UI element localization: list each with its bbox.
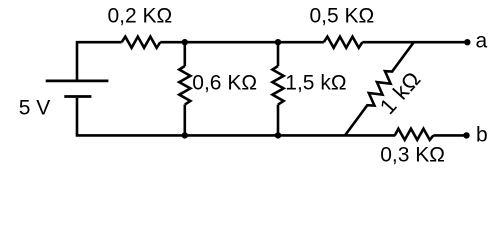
svg-text:0,2 KΩ: 0,2 KΩ — [108, 4, 173, 27]
svg-text:b: b — [476, 124, 488, 147]
svg-text:1,5 kΩ: 1,5 kΩ — [285, 71, 346, 94]
svg-text:0,5 KΩ: 0,5 KΩ — [310, 4, 375, 27]
svg-text:a: a — [476, 30, 488, 53]
svg-text:5 V: 5 V — [19, 96, 51, 119]
svg-text:0,6 KΩ: 0,6 KΩ — [192, 71, 257, 94]
svg-text:0,3 KΩ: 0,3 KΩ — [380, 143, 445, 166]
